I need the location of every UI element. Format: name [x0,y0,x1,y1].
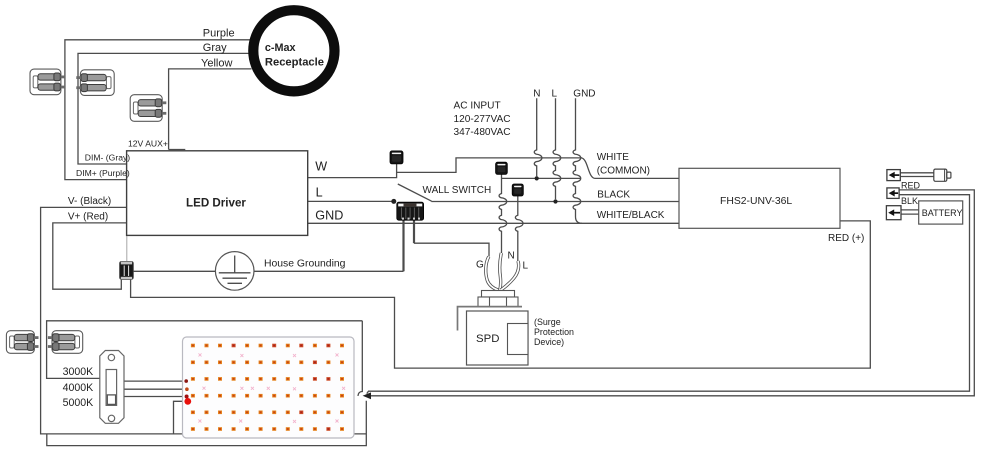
svg-text:4000K: 4000K [63,382,94,394]
svg-text:Receptacle: Receptacle [265,56,324,68]
svg-text:(Surge: (Surge [534,317,561,327]
svg-text:c-Max: c-Max [265,42,296,54]
svg-text:BLK: BLK [901,196,918,206]
svg-text:DIM- (Gray): DIM- (Gray) [85,153,130,163]
svg-text:12V AUX+: 12V AUX+ [128,139,168,149]
svg-text:GND: GND [573,89,595,100]
svg-text:SPD: SPD [476,333,499,345]
svg-text:(COMMON): (COMMON) [597,166,650,177]
svg-text:RED: RED [901,181,921,191]
svg-text:G: G [476,260,484,271]
svg-text:L: L [552,89,558,100]
svg-text:LED Driver: LED Driver [186,197,246,210]
svg-text:5000K: 5000K [63,397,94,409]
svg-text:FHS2-UNV-36L: FHS2-UNV-36L [720,196,792,207]
svg-text:3000K: 3000K [63,366,94,378]
svg-text:Device): Device) [534,337,564,347]
svg-text:347-480VAC: 347-480VAC [454,127,511,138]
svg-text:Purple: Purple [203,28,235,40]
svg-text:L: L [523,261,529,272]
svg-text:BATTERY: BATTERY [922,208,963,218]
svg-text:W: W [315,160,327,174]
svg-text:Gray: Gray [203,42,227,54]
svg-text:V- (Black): V- (Black) [68,196,111,207]
svg-text:AC INPUT: AC INPUT [454,100,501,111]
svg-text:V+ (Red): V+ (Red) [68,212,108,223]
svg-text:N: N [533,89,540,100]
svg-text:N: N [508,251,515,262]
svg-text:WALL SWITCH: WALL SWITCH [423,185,492,196]
svg-text:Protection: Protection [534,327,574,337]
svg-text:DIM+ (Purple): DIM+ (Purple) [76,168,130,178]
svg-text:WHITE: WHITE [597,152,630,163]
svg-text:120-277VAC: 120-277VAC [454,114,511,125]
svg-text:WHITE/BLACK: WHITE/BLACK [597,210,665,221]
svg-text:GND: GND [315,209,343,223]
svg-text:RED (+): RED (+) [828,233,864,244]
svg-text:House Grounding: House Grounding [264,259,346,270]
svg-text:Yellow: Yellow [201,57,232,69]
svg-text:L: L [316,186,323,200]
svg-text:BLACK: BLACK [597,189,630,200]
